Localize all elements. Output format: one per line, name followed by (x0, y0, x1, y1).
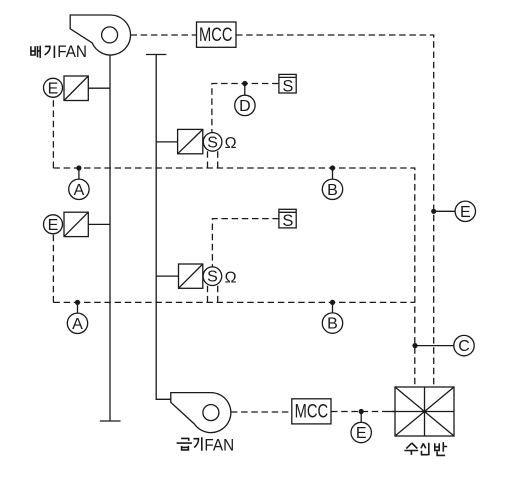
svg-text:Ω: Ω (225, 135, 237, 152)
svg-text:S: S (207, 134, 218, 151)
actuator E2 circle (44, 215, 63, 234)
duct 2 top bar (146, 54, 166, 56)
wire duct2 to damper box row1 (156, 141, 177, 143)
svg-text:S: S (207, 269, 218, 286)
junction B1 (330, 165, 335, 170)
junction D (242, 81, 247, 86)
sensor S1 circle (203, 133, 222, 152)
damper actuator box 1 (64, 76, 88, 101)
sensor S2 circle (203, 267, 222, 286)
svg-text:D: D (239, 98, 251, 115)
junction C (412, 343, 417, 348)
svg-text:MCC: MCC (199, 25, 233, 46)
junction E bottom (359, 409, 364, 414)
node E bottom circle (351, 422, 371, 442)
wire damper2 to duct1 (88, 223, 110, 225)
duct 1 end bar (100, 420, 121, 422)
svg-text:E: E (48, 217, 59, 234)
svg-text:E: E (48, 80, 59, 97)
fan SF (급기FAN) body (171, 393, 231, 433)
korean 기 (gi) of 배기FAN (45, 46, 55, 58)
duct riser 1 (exhaust duct vertical) (109, 55, 111, 421)
node E right stub (434, 210, 455, 212)
fan EF (배기FAN) body (70, 15, 130, 55)
svg-text:Ω: Ω (225, 269, 237, 286)
svg-text:E: E (356, 425, 367, 442)
wire fan SF to MCC2 (dashed) (231, 411, 292, 413)
damper actuator box 2 (64, 212, 88, 236)
wire S box2 to corner and down to S2 (dashed) (212, 219, 279, 267)
wire E1 down to bus1 (dashed) (52, 97, 54, 168)
wire S2 legs to bus2 (dashed) (208, 284, 218, 303)
node D circle (235, 95, 255, 115)
wire S box1 to corner and down to S1 (dashed) (212, 84, 279, 133)
duct riser 2 (supply duct vertical) (156, 55, 171, 400)
junction E right (431, 209, 436, 214)
junction B2 (330, 300, 335, 305)
svg-text:S: S (282, 77, 293, 95)
node B2 circle (322, 313, 342, 333)
svg-text:FAN: FAN (57, 42, 87, 61)
damper box row1 (at duct2) (178, 129, 203, 153)
duct sensor box S row2 (279, 209, 296, 228)
node B1 circle (322, 179, 342, 199)
wire MCC1 to right riser (dashed) (236, 35, 434, 387)
damper box row2 (at duct2) (179, 264, 203, 288)
korean 반 (ban) of 수신반 (435, 442, 447, 455)
actuator E1 circle (44, 78, 63, 97)
receiver panel 수신반 box (395, 387, 454, 436)
korean 기 (gi) of 급기FAN (193, 437, 201, 451)
node A1 stub (78, 168, 80, 179)
svg-text:MCC: MCC (295, 402, 329, 423)
svg-text:E: E (460, 204, 471, 221)
duct sensor box S row1 (279, 74, 296, 93)
node A2 stub (77, 302, 79, 313)
node C stub (415, 345, 454, 347)
svg-text:FAN: FAN (204, 436, 234, 455)
bus row2 (dashed) (53, 301, 414, 303)
svg-text:B: B (327, 316, 338, 333)
wire MCC2 to panel (dashed) (331, 411, 395, 413)
wire E2 down to bus2 (dashed) (52, 234, 54, 303)
fan SF hub circle (203, 405, 219, 421)
fan EF hub circle (102, 27, 118, 43)
wire fan EF to MCC1 (dashed) (131, 34, 197, 36)
svg-text:A: A (74, 182, 85, 199)
korean 신 (sin) of 수신반 (421, 443, 429, 455)
node E right circle (455, 201, 475, 221)
MCC box 1 (197, 22, 237, 47)
wire S1 legs to bus1 (dashed) (208, 150, 218, 168)
korean 급 (geup) of 급기FAN (177, 438, 192, 450)
node D stub (244, 84, 246, 96)
wire duct2 to damper box row2 (156, 275, 178, 277)
junction A1 (76, 165, 81, 170)
svg-text:C: C (458, 338, 470, 355)
node E bottom stub (360, 412, 362, 423)
node B1 stub (332, 168, 334, 179)
svg-text:S: S (282, 212, 293, 230)
svg-text:B: B (327, 182, 338, 199)
node C circle (454, 335, 474, 355)
junction A2 (75, 300, 80, 305)
svg-text:A: A (72, 316, 83, 333)
wire damper1 to duct1 (88, 87, 110, 89)
MCC box 2 (292, 399, 331, 424)
korean 수 (su) of 수신반 (404, 443, 418, 455)
node A2 circle (67, 313, 87, 333)
node B2 stub (332, 302, 334, 313)
bus row1 (dashed) (53, 168, 414, 387)
node A1 circle (69, 179, 89, 199)
korean 배 (bae) of 배기FAN (31, 46, 40, 58)
